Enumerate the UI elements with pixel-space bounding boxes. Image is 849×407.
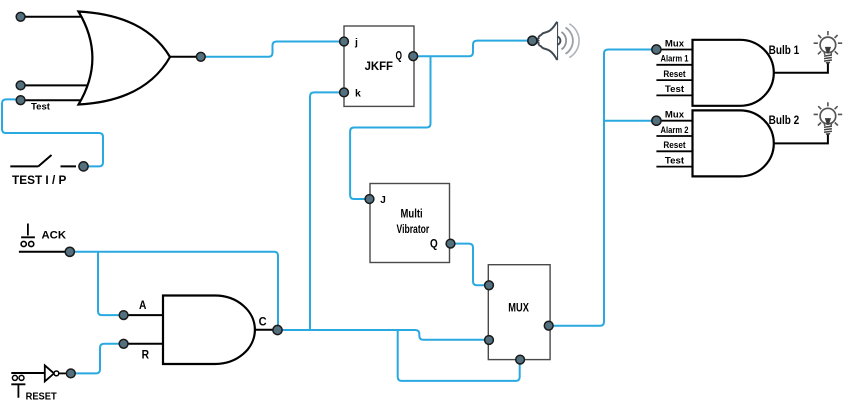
and-gate U5 output lead C — [255, 329, 278, 331]
svg-text:Reset: Reset — [663, 140, 685, 150]
switch S1 TEST I/P — [10, 155, 76, 166]
wire W4: U1 pin k down to node C net — [310, 92, 344, 330]
and-gate U6 output lead to bulb B1 — [774, 63, 828, 73]
svg-text:Q: Q — [430, 239, 438, 251]
speaker LS1 — [537, 22, 579, 60]
node RESET — [66, 369, 75, 378]
wire W5: Test input to TEST I/P switch — [2, 99, 103, 166]
svg-text:TEST I / P: TEST I / P — [12, 173, 66, 187]
svg-text:A: A — [139, 300, 146, 312]
node U6 Mux input — [652, 45, 661, 54]
svg-text:Bulb 2: Bulb 2 — [769, 113, 800, 127]
node OR1 input 2 — [16, 81, 25, 90]
node OR1 output — [196, 52, 205, 61]
svg-text:R: R — [142, 350, 150, 362]
and-gate U7 — [693, 110, 774, 176]
jk flip-flop U1 box — [344, 26, 414, 106]
node U3 input 1 — [485, 281, 494, 290]
wire W10: node C branch to MUX U3 bottom pin — [398, 330, 520, 381]
node U1 pin J — [340, 37, 349, 46]
svg-text:Vibrator: Vibrator — [397, 222, 430, 236]
and-gate U5 — [163, 296, 255, 365]
wire W12: MUX U3 output up to gate U6 Mux input — [549, 50, 657, 326]
wire W3: U1 Q branch down to U2 pin j — [350, 56, 430, 199]
svg-text:J: J — [380, 195, 386, 206]
inverter U4 — [45, 365, 66, 381]
OR1 input lead 2 — [21, 84, 92, 86]
svg-text:j: j — [354, 36, 358, 48]
node U5 input R — [119, 339, 128, 348]
node OR1 input 3 Test — [16, 96, 25, 105]
or-gate OR1 — [79, 12, 171, 105]
node S1 TEST I/P — [79, 162, 88, 171]
svg-text:k: k — [355, 88, 361, 100]
OR1 input lead 3 (Test) — [21, 99, 88, 101]
bulb B1 — [814, 31, 843, 63]
node LS1 input — [528, 36, 537, 45]
and-gate U5 input lead A — [124, 314, 164, 316]
svg-text:JKFF: JKFF — [365, 59, 393, 73]
multivibrator U2 box — [370, 184, 450, 263]
svg-text:Test: Test — [665, 155, 684, 165]
OR1 output lead — [169, 56, 201, 58]
node U1 pin Q — [409, 52, 418, 61]
node U5 input A — [119, 311, 128, 320]
wire W11: U2 Q to MUX U3 input 1 — [451, 244, 489, 286]
bulb B2 — [814, 102, 843, 134]
node U2 pin j — [365, 195, 374, 204]
node C — [273, 325, 282, 334]
svg-text:MUX: MUX — [508, 301, 529, 315]
node U2 pin Q — [446, 239, 455, 248]
node U1 pin k — [340, 88, 349, 97]
and-gate U7 output lead to bulb B2 — [774, 134, 828, 144]
wire W8: RESET inverter out to gate U5 input R — [71, 344, 124, 374]
svg-text:Mux: Mux — [665, 38, 685, 48]
wire W2: U1 Q to speaker LS1 — [413, 41, 529, 57]
node OR1 input 1 — [16, 12, 25, 21]
wire W1: OR1 output to U1 pin J — [203, 42, 344, 57]
svg-text:Alarm 1: Alarm 1 — [661, 54, 689, 64]
node U3 bottom — [516, 355, 525, 364]
svg-text:RESET: RESET — [26, 390, 58, 402]
wire W6: ACK node to node C — [70, 252, 278, 330]
node U7 Mux input — [652, 116, 661, 125]
svg-text:Test: Test — [31, 101, 51, 112]
svg-text:Multi: Multi — [401, 206, 423, 220]
OR1 input lead 1 — [21, 16, 88, 18]
wire W7: ACK branch down to gate U5 input A — [98, 252, 124, 315]
svg-text:Alarm 2: Alarm 2 — [661, 125, 689, 135]
svg-text:ACK: ACK — [42, 229, 67, 241]
wire W9: node C to MUX U3 input 2 — [278, 330, 489, 340]
and-gate U6 input lines — [656, 50, 694, 96]
node U3 input 2 — [485, 336, 494, 345]
svg-text:Bulb 1: Bulb 1 — [769, 43, 800, 57]
svg-text:Mux: Mux — [665, 110, 685, 120]
svg-text:Test: Test — [665, 84, 684, 94]
node ACK — [65, 247, 74, 256]
push-button ACK symbol — [19, 224, 70, 252]
svg-text:Q: Q — [396, 50, 403, 62]
and-gate U6 — [693, 40, 774, 106]
mux U3 box — [488, 265, 550, 360]
svg-text:Reset: Reset — [663, 69, 685, 79]
push-button RESET symbol — [11, 373, 45, 398]
wire W13: branch to gate U7 Mux input — [604, 120, 656, 122]
and-gate U7 input lines — [656, 121, 694, 167]
svg-text:C: C — [259, 317, 267, 329]
node U3 output — [544, 321, 553, 330]
and-gate U5 input lead R — [124, 343, 164, 345]
